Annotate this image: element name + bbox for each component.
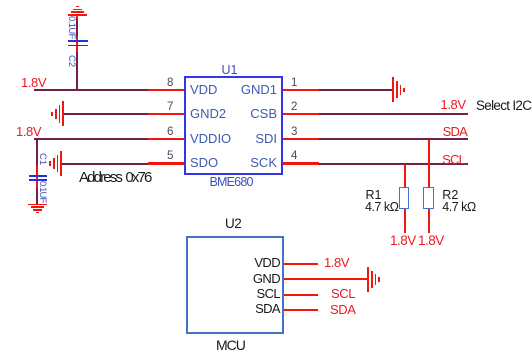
wire: R1 bottom to 1.8V <box>404 209 406 233</box>
note: Select I2C <box>476 99 531 113</box>
pin name SDO <box>190 156 218 170</box>
wire: C2 bottom to VDD rail <box>0 0 532 1</box>
reference R1 <box>366 189 382 202</box>
op-amp U1 body (BME680 ic box) <box>184 76 283 175</box>
wire: 1.8V to pin 8 <box>34 89 148 91</box>
capacitor C2 <box>0 0 532 1</box>
pin name SCK <box>250 156 277 170</box>
ground below C1 (tip down) <box>0 0 532 1</box>
pin 6 (VDDIO) stub <box>148 138 184 140</box>
pin number 5 <box>167 150 173 162</box>
wire: red lead between C2 plates <box>76 42 78 45</box>
net label SCL <box>442 153 465 167</box>
pin 4 (SCK) stub <box>283 162 319 164</box>
ground at pin 1 (tip right) <box>0 0 532 1</box>
value label 0.1UF (C1) <box>36 181 48 202</box>
pin SDA (U2) stub <box>284 309 318 311</box>
reference U2 <box>225 217 241 231</box>
pin name VDD (U2) <box>254 256 280 270</box>
wire: 1.8V to pin 6 <box>34 138 148 140</box>
pin number 2 <box>291 101 297 113</box>
reference R2 <box>442 189 458 202</box>
wire: R2 bottom to 1.8V <box>428 209 430 233</box>
ground at top of C2 (inverted, tip up) <box>0 0 532 1</box>
pin VDD (U2) stub <box>284 263 318 265</box>
reference label C1 <box>36 153 48 165</box>
power label 1.8V (CSB) <box>441 98 466 112</box>
pin name VDDIO <box>190 132 231 146</box>
pin number 7 <box>167 101 173 113</box>
ground at U2 GND (tip right) <box>0 0 532 1</box>
wire: ground to pin 5 <box>62 163 149 165</box>
net label SDA (U2) <box>330 303 356 317</box>
pin number 4 <box>291 150 297 162</box>
mcu U2 body <box>186 236 284 334</box>
reference label C2 <box>65 55 77 67</box>
pin GND (U2) wire to ground <box>284 278 367 280</box>
net label SCL (U2) <box>331 287 355 301</box>
pin 7 (GND2) stub <box>148 113 184 115</box>
pin number 8 <box>167 77 173 89</box>
ground at pin 7 (tip left) <box>0 0 532 1</box>
wire: C1 bottom to ground <box>0 0 532 1</box>
pin 1 (GND1) stub <box>283 89 319 91</box>
value MCU <box>216 338 245 353</box>
pin name SDI <box>255 132 277 146</box>
wire: ground to C2 top <box>0 0 532 1</box>
pin SCL (U2) stub <box>284 294 318 296</box>
ground at pin 5 (tip left) <box>0 0 532 1</box>
wire: SDA line down to R2 <box>428 140 430 188</box>
value BME680 <box>210 176 253 189</box>
wire: pin 1 to ground <box>319 89 392 91</box>
pin name SDA (U2) <box>255 302 280 316</box>
note: Address 0x76 <box>79 170 151 186</box>
power label 1.8V (VDD rail) <box>21 76 46 90</box>
power label 1.8V (R1) <box>390 234 416 248</box>
power label 1.8V (VDDIO) <box>16 125 41 139</box>
resistor R2 <box>423 187 433 209</box>
resistor R1 <box>399 187 409 209</box>
pin number 6 <box>167 126 173 138</box>
power label 1.8V (R2) <box>418 234 444 248</box>
value 4.7 kOhm (R2) <box>442 201 475 214</box>
wire: red lead between C1 plates <box>36 177 38 179</box>
pin name SCL (U2) <box>257 287 281 301</box>
pin number 1 <box>291 77 297 89</box>
pin 8 (VDD) stub <box>148 89 184 91</box>
reference U1 <box>222 64 238 77</box>
pin 5 (SDO) stub <box>148 162 184 164</box>
pin name GND (U2) <box>253 272 280 286</box>
pin name CSB <box>250 107 277 121</box>
value label 0.1UF (C2) <box>65 16 77 39</box>
wire: SCL line down to R1 <box>404 164 406 187</box>
value 4.7 kOhm (R1) <box>365 201 398 214</box>
wire: junction down to C1 <box>0 0 532 1</box>
pin name GND2 <box>190 107 226 121</box>
pin number 3 <box>291 126 297 138</box>
pin 3 (SDI) stub <box>283 138 319 140</box>
net label SDA <box>443 125 467 139</box>
wire: pin 4 to SCL label <box>319 163 468 165</box>
pin name VDD <box>190 83 217 97</box>
power label 1.8V (U2 VDD) <box>324 256 349 270</box>
pin name GND1 <box>241 83 277 97</box>
wire: pin 3 to SDA label <box>319 138 468 140</box>
wire: ground to pin 7 <box>64 113 149 115</box>
pin 2 (CSB) stub <box>283 113 319 115</box>
wire: pin 2 to 1.8V label <box>319 113 468 115</box>
capacitor C1 <box>0 0 532 1</box>
